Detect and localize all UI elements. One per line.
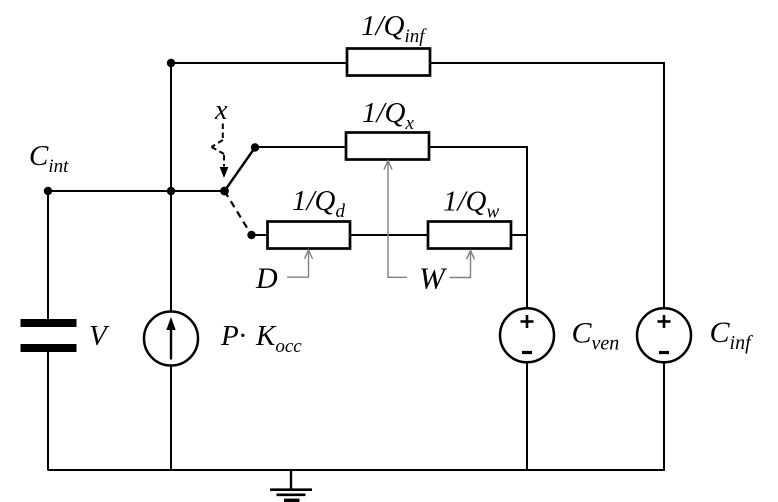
svg-text:1/Qw: 1/Qw xyxy=(443,186,500,223)
svg-text:V: V xyxy=(89,320,110,352)
svg-text:x: x xyxy=(214,95,228,126)
svg-text:D: D xyxy=(255,262,278,295)
svg-text:1/Qd: 1/Qd xyxy=(292,185,346,222)
svg-text:1/Qinf: 1/Qinf xyxy=(361,10,427,47)
svg-text:Kocc: Kocc xyxy=(255,320,302,357)
svg-text:Cinf: Cinf xyxy=(710,316,754,354)
svg-text:1/Qx: 1/Qx xyxy=(362,97,415,134)
svg-text:W: W xyxy=(419,261,448,296)
svg-text:Cven: Cven xyxy=(572,317,620,355)
svg-text:Cint: Cint xyxy=(29,140,69,177)
svg-text:P·: P· xyxy=(220,320,246,352)
